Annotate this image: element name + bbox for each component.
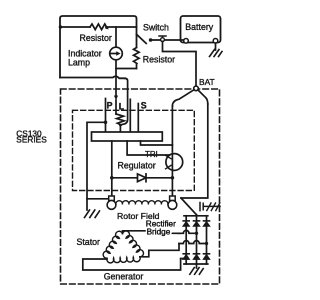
regulator terminal bar (92, 132, 163, 141)
wire: bar to TRI (127, 141, 170, 155)
svg-text:P: P (107, 101, 113, 111)
wire: field diode (112, 177, 173, 179)
resistor (switch side, vertical) (134, 48, 140, 64)
rectifier bridge top bus (184, 215, 208, 217)
instrument cluster box (60, 16, 137, 78)
wire: bridge ground stem (196, 264, 198, 268)
transistor TRI (166, 154, 183, 171)
generator housing (outer dashed box) (61, 89, 220, 284)
svg-text:Lamp: Lamp (68, 58, 90, 68)
svg-text:Stator: Stator (77, 237, 101, 247)
node: P lead junction (104, 121, 108, 125)
wire: lamp bottom (116, 60, 137, 69)
wire: ignition tap to BAT (163, 42, 197, 87)
stator delta winding (103, 231, 122, 258)
brush (right) (170, 196, 176, 201)
wire: bar to left brush (111, 141, 113, 196)
terminal S lead (137, 104, 139, 133)
terminal P lead (105, 99, 107, 133)
wire: stator phase A (123, 231, 181, 234)
node: diode wire left junction (110, 176, 114, 180)
wire: stator phase C loop (83, 259, 186, 271)
svg-text:SERIES: SERIES (16, 135, 47, 145)
wire: TRI emitter down (171, 170, 173, 196)
rectifier bridge bottom bus (184, 263, 208, 265)
diode D1 (138, 174, 147, 182)
battery ground (210, 50, 223, 57)
diode D6 (194, 253, 200, 255)
bridge column 3 (206, 216, 208, 264)
wire: P branch to brush (87, 122, 109, 199)
wire: cluster tab lead (120, 78, 128, 125)
wire: resistor feed (60, 26, 90, 28)
brush ground (85, 210, 100, 218)
svg-text:L: L (119, 102, 125, 112)
bridge column 1 (185, 216, 187, 264)
label pointer (Bridge) (173, 232, 182, 234)
switch blade (137, 34, 147, 43)
svg-text:Regulator: Regulator (118, 161, 156, 171)
svg-text:Bridge: Bridge (147, 227, 171, 236)
diode D7 (204, 253, 210, 255)
svg-text:Switch: Switch (143, 23, 169, 33)
regulator boundary (inner dashed box) (73, 110, 195, 190)
rotor field coil (116, 201, 168, 205)
battery terminal (right) (213, 39, 218, 44)
wire: brush ground stem (86, 199, 88, 210)
wire: diagonal to rectifier (181, 198, 196, 215)
wire: stator phase B (140, 244, 179, 257)
suppressor resistor on L lead (116, 114, 124, 125)
brush (left) (109, 196, 115, 201)
diode D3 (194, 220, 200, 222)
ignition key symbol (159, 36, 166, 38)
wire: battery to ground (215, 43, 217, 50)
diode D4 (204, 220, 210, 222)
wire: phase B hops into bridge (179, 241, 207, 244)
wire: phase A hop into bridge (178, 230, 197, 233)
wire: switch to battery (151, 39, 184, 41)
wire: BAT right elbow (198, 90, 208, 104)
node: resistor feed at cluster edge (59, 25, 62, 28)
diode D2 (183, 220, 189, 222)
svg-text:Battery: Battery (185, 22, 213, 32)
wire: L lead down with arrow (115, 69, 117, 97)
wire: lamp top (115, 27, 117, 47)
terminal I lead (129, 99, 131, 132)
bridge ground (190, 268, 203, 275)
wire: TRI collector down (171, 106, 173, 152)
svg-text:Generator: Generator (104, 272, 144, 282)
chassis ground (case) (200, 203, 203, 211)
cluster box bottom edge (60, 76, 125, 78)
wire: right feed down (181, 104, 208, 198)
battery terminal (left) (184, 39, 189, 44)
diode D5 (183, 253, 189, 255)
svg-text:BAT: BAT (199, 77, 215, 87)
svg-text:TRI: TRI (145, 150, 158, 159)
resistor R (parallel) (90, 24, 107, 30)
svg-text:Resistor: Resistor (80, 33, 112, 43)
wire: bar to TRI top (141, 141, 173, 145)
battery box (181, 16, 221, 43)
node: diode wire right junction (171, 176, 175, 180)
wire: BAT left elbow (172, 90, 194, 106)
svg-text:S: S (141, 100, 147, 110)
node BAT (194, 86, 199, 91)
bridge column 2 (196, 215, 198, 264)
switch contact (149, 38, 153, 42)
svg-text:Resistor: Resistor (143, 55, 175, 65)
indicator lamp (110, 47, 123, 60)
